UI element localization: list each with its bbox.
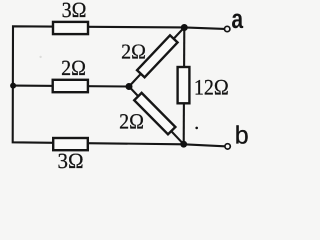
resistor 2ohm diagonal upper	[137, 35, 178, 77]
resistor 3ohm bottom	[53, 138, 88, 150]
svg-text:2Ω: 2Ω	[121, 41, 146, 64]
wire: middle horizontal from left node to center node	[13, 85, 129, 88]
terminal b open circle	[225, 144, 230, 149]
svg-text:a: a	[231, 4, 243, 34]
node: top-right junction	[181, 24, 188, 31]
wire: top node to terminal a	[184, 27, 224, 29]
node: center junction	[126, 83, 133, 90]
wire: bottom node to terminal b	[184, 144, 225, 146]
resistor 2ohm diagonal lower	[134, 93, 175, 134]
svg-text:3Ω: 3Ω	[57, 148, 83, 173]
svg-text:2Ω: 2Ω	[61, 57, 86, 81]
resistor 12ohm vertical	[178, 67, 190, 103]
svg-text:2Ω: 2Ω	[119, 110, 144, 134]
node: bottom-right junction	[180, 141, 187, 148]
resistor 2ohm middle	[53, 80, 88, 92]
node: left junction	[10, 83, 16, 89]
svg-text:12Ω: 12Ω	[194, 76, 229, 100]
resistor 3ohm top	[53, 22, 88, 34]
wire: vertical branch through 12 ohm	[183, 27, 186, 144]
speck artifact	[195, 127, 198, 130]
terminal a open circle	[225, 26, 230, 31]
faint speck artifact	[39, 56, 41, 58]
svg-text:b: b	[235, 122, 249, 150]
wire: diagonal top (center node to top node)	[129, 27, 184, 86]
wire: diagonal bottom (center node to bottom node)	[129, 87, 184, 145]
wire: outer loop (top wire, left vertical wire, bottom wire)	[13, 26, 185, 144]
svg-text:3Ω: 3Ω	[62, 0, 87, 22]
